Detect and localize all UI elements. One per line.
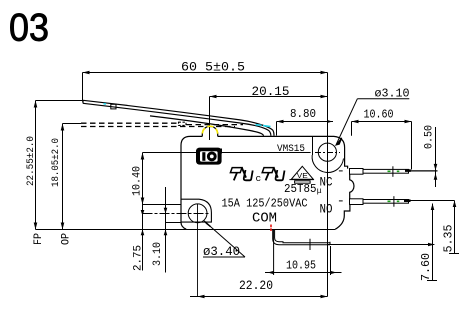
- left extension: [273, 230, 275, 276]
- svg-text:OP: OP: [61, 233, 73, 245]
- svg-text:10.60: 10.60: [364, 108, 394, 122]
- ext foot bottom: [166, 222, 182, 224]
- svg-text:20.15: 20.15: [252, 84, 290, 99]
- dim 60.5 line: [83, 72, 328, 74]
- svg-text:03: 03: [9, 7, 49, 50]
- svg-text:22.55±2.0: 22.55±2.0: [25, 136, 37, 186]
- cyan dash near lever tip: [104, 103, 107, 105]
- svg-text:22.20: 22.20: [239, 278, 273, 293]
- FP arrows: [34, 101, 38, 108]
- lever: [83, 100, 274, 136]
- NC blade top extension to 0.50 dim: [408, 170, 438, 172]
- hole centerline horizontal: [143, 152, 341, 154]
- dim line 10.40 / 2.75 vertical: [142, 153, 144, 271]
- svg-text:18.05±2.0: 18.05±2.0: [50, 138, 62, 187]
- 0.50 arrows: [434, 164, 438, 171]
- FP extension line: [36, 100, 83, 102]
- cyan highlight dashes on lever: [104, 104, 271, 127]
- svg-text:FP: FP: [33, 233, 45, 245]
- bottom-left foot: [181, 199, 212, 222]
- dashed lever OP position line top right part: [187, 124, 244, 126]
- svg-text:7.60: 7.60: [420, 253, 433, 281]
- dim 10.95: [265, 230, 342, 276]
- svg-text:5.35: 5.35: [443, 224, 456, 252]
- right extension: [330, 246, 332, 275]
- plunger (yellow): [202, 126, 217, 136]
- UL mark 1: [230, 168, 252, 181]
- dim 0.50 vertical: [435, 127, 437, 187]
- dim 20.15 line: [210, 96, 328, 98]
- left small extension lines: [143, 153, 182, 273]
- lever bottom line: [83, 103, 271, 135]
- baseline bottom: [36, 229, 336, 231]
- boss left line: [312, 136, 314, 155]
- svg-text:COM: COM: [252, 212, 277, 227]
- svg-text:VE: VE: [297, 171, 308, 180]
- svg-text:25T85: 25T85: [284, 183, 317, 196]
- dashed lever bend mark: [179, 122, 187, 125]
- svg-text:3.10: 3.10: [152, 242, 164, 266]
- 20.15 arrows: [210, 95, 217, 99]
- svg-text:ø3.40: ø3.40: [203, 245, 240, 259]
- dashed lever OP position line bottom: [81, 126, 235, 128]
- switch body outline: [181, 136, 354, 229]
- dim 8.80 left extension: [276, 122, 278, 136]
- cyan dash near hinge 2: [263, 126, 271, 127]
- NO terminal: [339, 196, 409, 207]
- svg-text:10.95: 10.95: [286, 259, 316, 273]
- OP extension line: [63, 123, 82, 125]
- svg-text:10.40: 10.40: [132, 166, 144, 196]
- dim line 3.10 vertical: [165, 187, 167, 273]
- NC green marks: [388, 170, 400, 172]
- lever underside line after bend: [150, 116, 264, 136]
- centerline from logo to hole: [143, 152, 311, 154]
- bottom hole centerline horizontal: [143, 213, 211, 215]
- dim 8.80 line: [277, 121, 334, 123]
- OP dim line: [62, 124, 64, 230]
- lever left end cap: [82, 100, 84, 103]
- ext line y=152.3 tick: [143, 152, 182, 154]
- ext foot top: [143, 204, 182, 206]
- dim 5.35 bottom tick: [449, 253, 459, 255]
- 10.40 arrows: [141, 153, 145, 160]
- OP arrows: [61, 124, 65, 131]
- dim 22.20 line: [190, 296, 328, 298]
- mounting hole bottom-left: [188, 204, 207, 223]
- svg-text:60 5±0.5: 60 5±0.5: [181, 60, 245, 75]
- COM top extension line to right: [328, 244, 434, 246]
- arrow ø3.10: [336, 138, 342, 145]
- NC terminal tip fill: [405, 169, 411, 172]
- dim 60.5 left extension: [82, 73, 84, 102]
- arrowheads: [34, 71, 457, 299]
- lever top line: [83, 100, 274, 135]
- boss arc: [312, 155, 343, 172]
- VDE triangle: [289, 166, 314, 183]
- leader ø3.40: [203, 222, 245, 257]
- dim 20.15 left extension: [209, 97, 211, 141]
- 7.60 arrows: [431, 204, 435, 211]
- body right edge between terminals (wave): [350, 174, 354, 199]
- bottom hole centerline vertical / 22.20 left extension: [197, 204, 199, 297]
- svg-text:2.75: 2.75: [133, 245, 145, 271]
- dim 7.60 bottom tick: [427, 280, 437, 282]
- leader ø3.10: [336, 99, 409, 145]
- svg-text:c: c: [256, 173, 262, 184]
- svg-text:ø3.10: ø3.10: [375, 87, 410, 101]
- mounting boss top-right: [312, 136, 343, 172]
- UL mark 2: [262, 168, 284, 181]
- NO blade top extension to 5.35 dim: [408, 200, 455, 202]
- 8.80 arrows: [277, 120, 284, 124]
- svg-text:0.50: 0.50: [424, 125, 436, 149]
- 5.35 arrows: [453, 201, 457, 208]
- NC terminal: [339, 166, 409, 177]
- NO terminal tip fill: [404, 199, 411, 202]
- 22.20 arrows: [198, 295, 205, 299]
- 3.10 arrows: [164, 208, 168, 214]
- dashed lever OP position line top: [81, 122, 178, 124]
- svg-text:NC: NC: [320, 175, 333, 190]
- 10.60 arrows: [352, 120, 359, 124]
- 2.75 arrows: [141, 210, 145, 216]
- FP dim line: [35, 101, 37, 230]
- body top-left and left and bottom: [181, 136, 202, 229]
- mounting hole top-right: [318, 143, 336, 161]
- body top edge right of plunger: [218, 136, 348, 168]
- dim 5.35 vertical: [454, 201, 456, 254]
- manufacturer logo: [196, 148, 222, 165]
- 60.5 arrows: [83, 71, 90, 75]
- cyan dash near hinge 1: [256, 124, 262, 127]
- svg-text:8.80: 8.80: [290, 107, 316, 121]
- COM ext right arrow: [428, 243, 434, 246]
- svg-text:VMS15: VMS15: [277, 144, 305, 155]
- svg-text:15A 125/250VAC: 15A 125/250VAC: [222, 198, 308, 211]
- red tick below COM: [270, 225, 272, 232]
- lever bend rectangle: [111, 104, 116, 109]
- svg-text:NO: NO: [320, 202, 333, 217]
- dim 10.60: [352, 122, 412, 170]
- COM terminal: [273, 230, 330, 250]
- dim 7.60 vertical: [432, 204, 434, 281]
- 10.95 arrows: [268, 271, 274, 274]
- arrow ø3.40: [204, 221, 210, 227]
- NO green marks: [388, 200, 400, 202]
- dim line: [265, 272, 342, 274]
- body right edge below NO terminal: [335, 204, 350, 229]
- main right extension line: [327, 73, 329, 297]
